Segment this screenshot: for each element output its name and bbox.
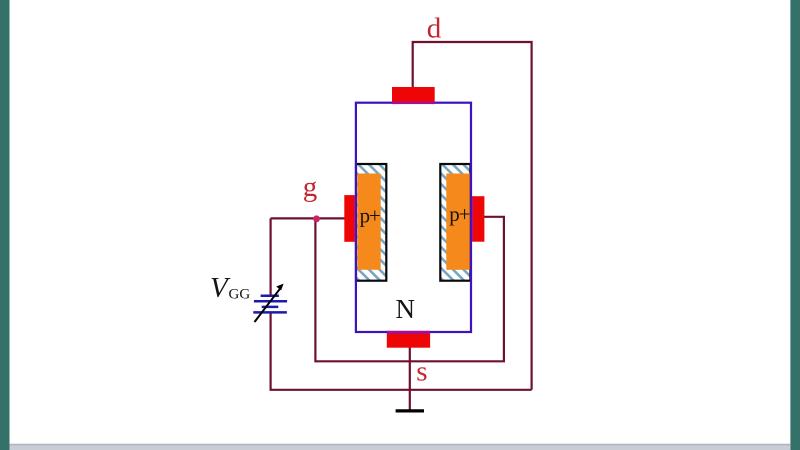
svg-text:p+: p+ (449, 202, 469, 226)
wire: source lead down to ground (409, 347, 411, 410)
p+ diffusion left (orange) (357, 174, 380, 270)
contact: source (bottom red) (387, 331, 430, 348)
overlap blend: right gate contact at body edge (472, 196, 473, 241)
overlap blend: source contact over bottom edge (387, 331, 430, 334)
wire: gate tie down, across, up to right contact (315, 217, 504, 361)
p+ gate region right (hatched box) (440, 164, 470, 281)
wire: gate horizontal to left contact (271, 217, 346, 219)
wire: drain lead up, across top, down right side (413, 42, 532, 390)
bottom gray bar top edge (10, 444, 791, 446)
node: gate junction dot (313, 215, 320, 222)
variable-source arrow through VGG (255, 284, 284, 322)
left teal sidebar (0, 0, 10, 450)
svg-text:p+: p+ (360, 203, 380, 227)
contact: gate left (red) (344, 195, 355, 242)
wire: bottom horizontal from right side to VGG branch (271, 312, 532, 389)
overlap blend: left gate contact at body edge (354, 195, 355, 241)
VGG battery plate long bottom (253, 311, 287, 314)
ground (396, 409, 424, 412)
svg-text:g: g (303, 171, 318, 203)
p+ diffusion right (orange) (446, 174, 470, 270)
svg-text:d: d (427, 12, 442, 44)
contact: gate right (red) (471, 196, 484, 242)
svg-text:GG: GG (229, 286, 251, 302)
VGG battery plate short (262, 306, 279, 309)
VGG battery plate short top (261, 294, 279, 297)
svg-text:s: s (416, 355, 427, 387)
contact: drain (top red) (392, 87, 435, 103)
overlap blend: drain contact over top edge (392, 102, 435, 105)
N channel body rectangle (356, 103, 471, 332)
VGG battery plate long (254, 300, 287, 303)
right teal sidebar (790, 0, 800, 450)
bottom gray bar (10, 444, 791, 450)
p+ gate region left (hatched box) (356, 164, 386, 281)
wire: VGG top lead up to gate line (270, 218, 272, 296)
svg-text:N: N (396, 294, 416, 324)
